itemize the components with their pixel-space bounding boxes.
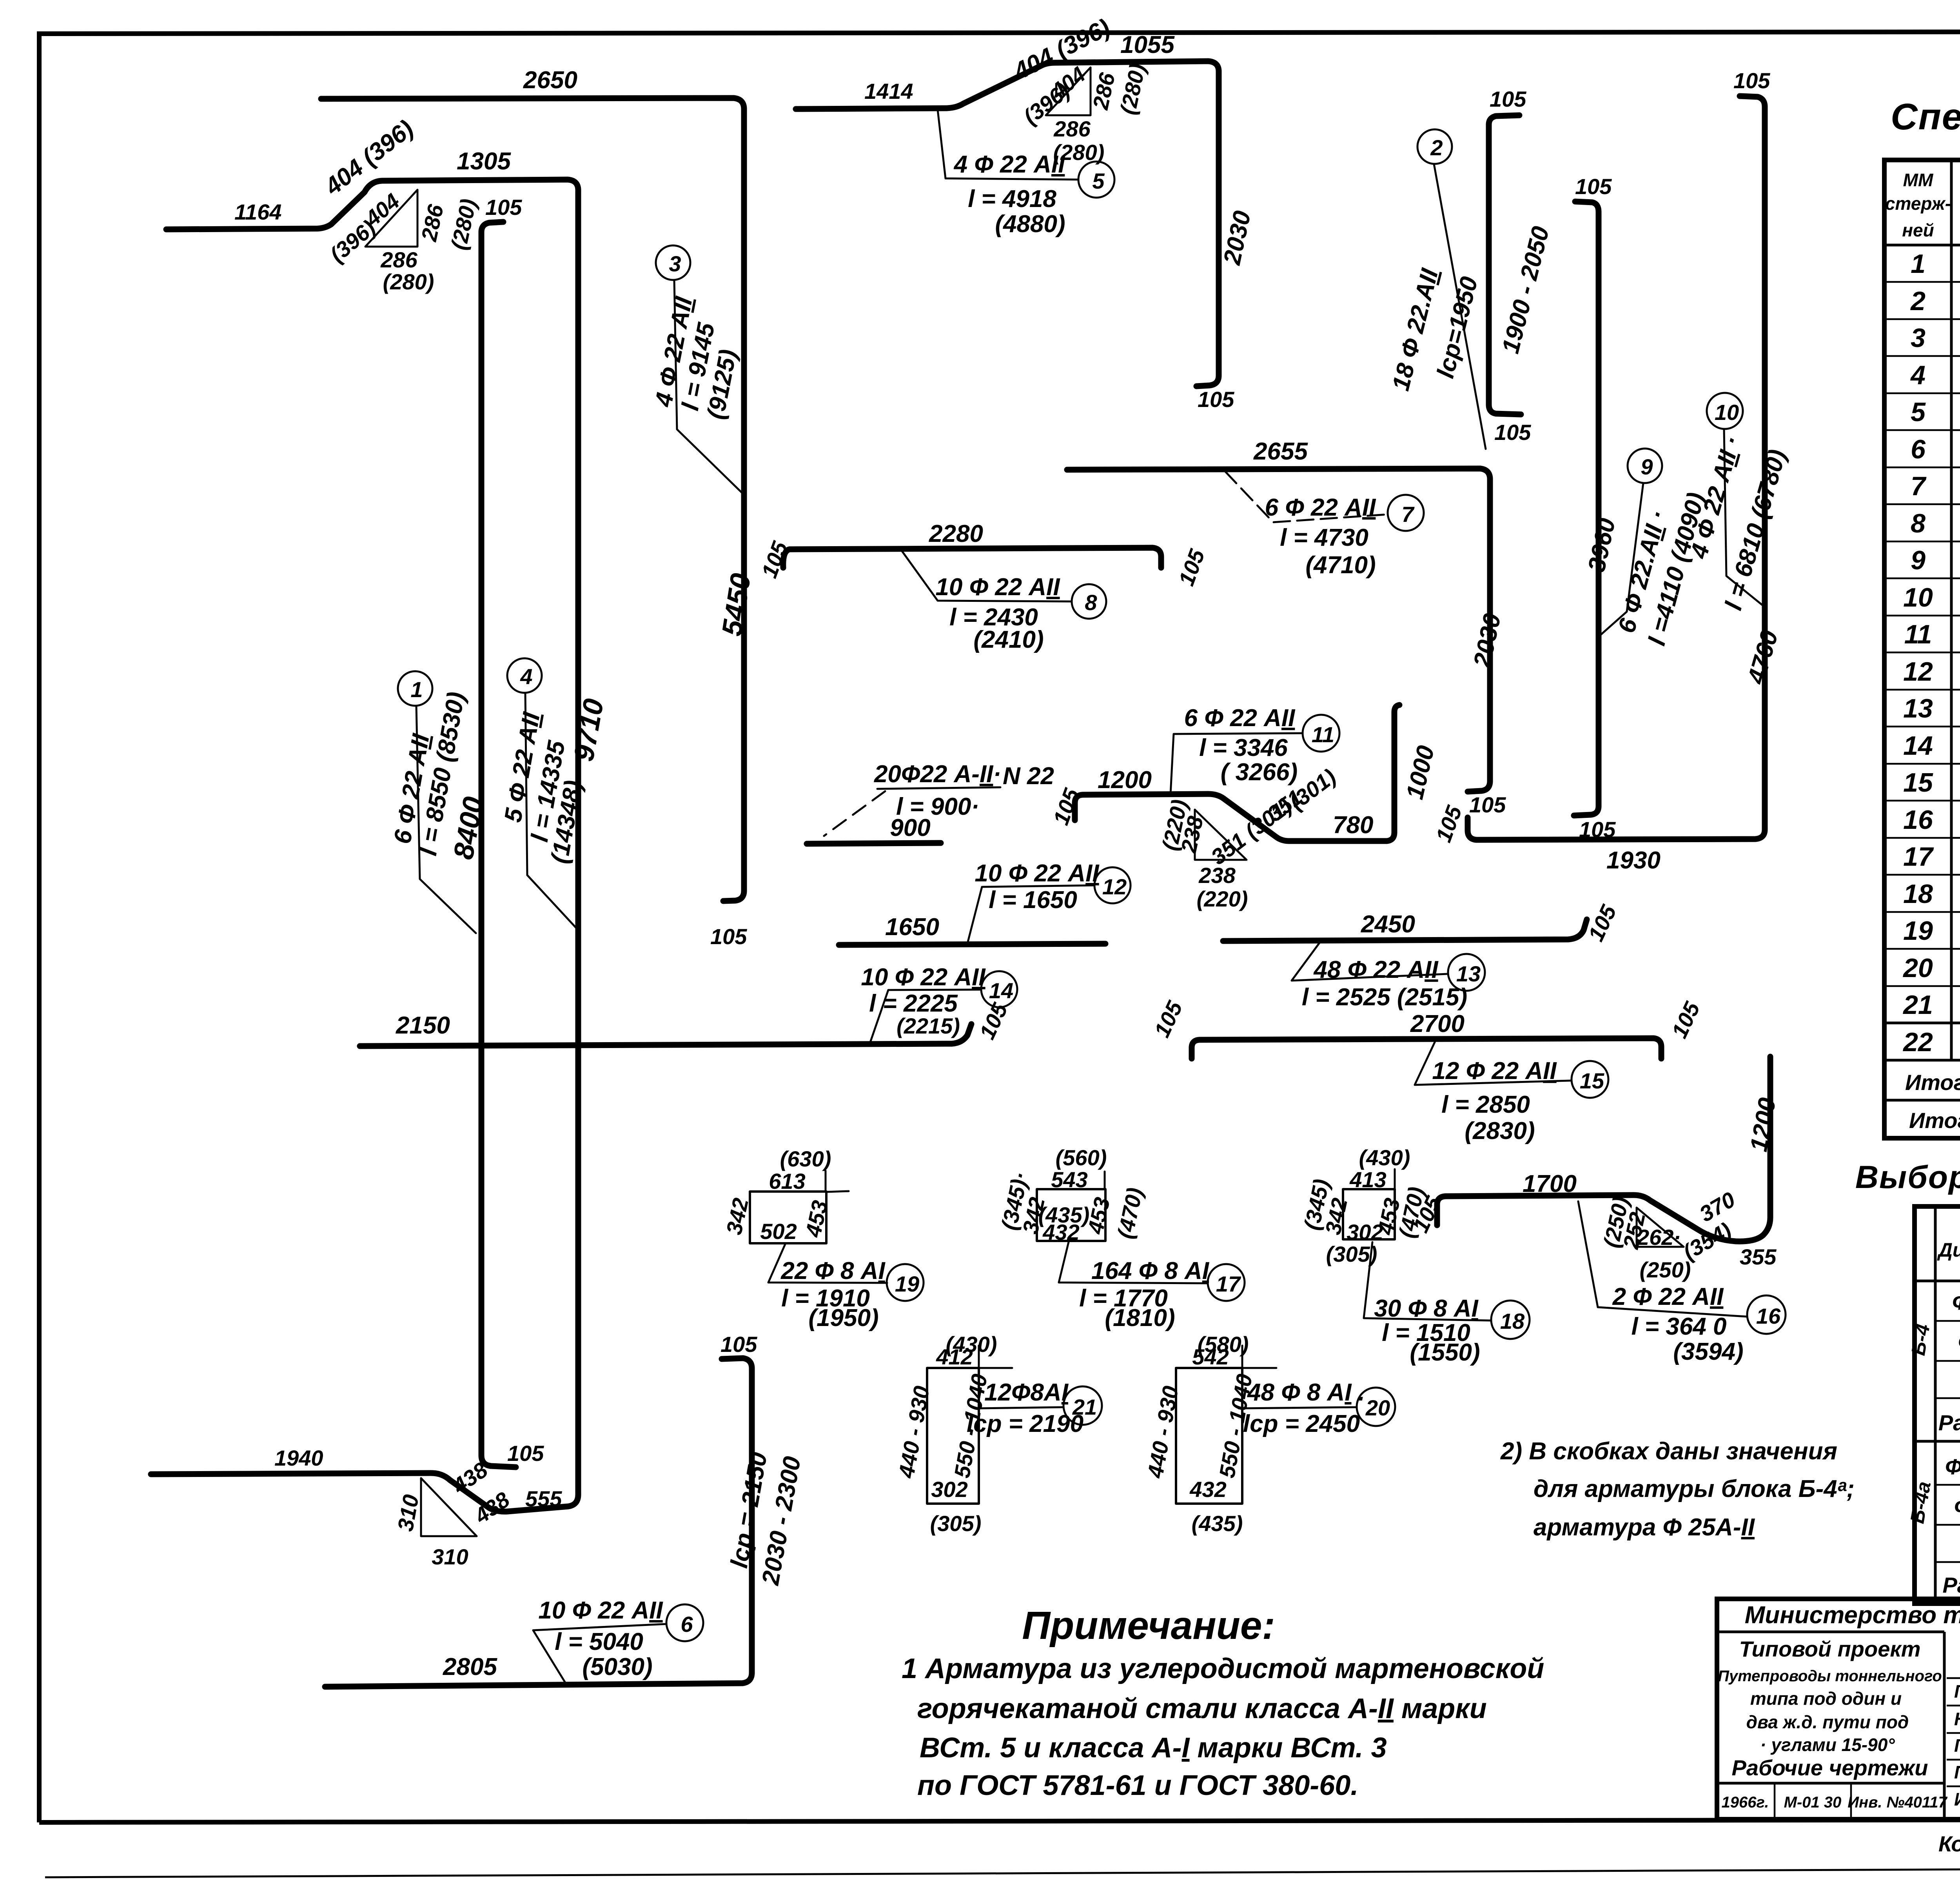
svg-text:(430): (430) — [1359, 1145, 1410, 1170]
svg-text:Инв. №40117: Инв. №40117 — [1847, 1794, 1947, 1811]
svg-text:1: 1 — [410, 677, 423, 702]
callout circle 17 leader — [1059, 1242, 1245, 1332]
svg-text:Путепроводы тоннельного: Путепроводы тоннельного — [1718, 1668, 1942, 1685]
rebar bar 10 (vertical 4760 + 1930) — [1431, 68, 1770, 874]
svg-text:14: 14 — [989, 978, 1013, 1003]
svg-text:12: 12 — [1102, 874, 1127, 899]
svg-text:30 Ф 8 АI: 30 Ф 8 АI — [1374, 1295, 1479, 1322]
svg-text:арматура Ф 25А-II: арматура Ф 25А-II — [1534, 1514, 1755, 1541]
spec table grid — [1884, 160, 1960, 1138]
svg-text:l = 4918: l = 4918 — [968, 185, 1056, 213]
svg-text:105: 105 — [1490, 87, 1526, 111]
svg-text:3: 3 — [669, 251, 681, 276]
spec table row 17 — [1903, 842, 1960, 872]
spec table row 20 — [1902, 953, 1960, 983]
svg-text:5: 5 — [1092, 169, 1105, 193]
stirrup rect 17 — [996, 1145, 1147, 1244]
svg-text:10 Ф 22 АII: 10 Ф 22 АII — [861, 964, 986, 991]
selection table row Ф8А-I — [1954, 1493, 1960, 1520]
svg-text:900: 900 — [890, 814, 930, 841]
svg-text:(250): (250) — [1640, 1257, 1691, 1282]
svg-text:17: 17 — [1216, 1272, 1241, 1296]
callout circle 10 leader — [1685, 393, 1791, 613]
svg-text:1305: 1305 — [457, 148, 511, 175]
selection table header text — [1937, 1217, 1960, 1282]
spec table row 7 — [1911, 471, 1960, 501]
svg-text:18: 18 — [1903, 879, 1933, 909]
svg-text:4: 4 — [520, 664, 532, 689]
svg-text:N 22: N 22 — [1003, 763, 1054, 790]
callout circle 4 leader — [499, 658, 587, 928]
svg-text:l = 364 0: l = 364 0 — [1631, 1313, 1726, 1340]
callout circle 6 leader — [533, 1597, 703, 1685]
svg-text:стерж-: стерж- — [1885, 193, 1951, 214]
rebar bar 3 (2650 + vertical 5450) — [321, 67, 747, 949]
spec table row 6 — [1911, 434, 1960, 464]
svg-text:Исполнил: Исполнил — [1954, 1789, 1960, 1809]
svg-text:2: 2 — [1910, 286, 1926, 316]
note 2 (values in brackets) — [1500, 1438, 1855, 1541]
rebar bar 1 (vertical 8400) — [481, 195, 544, 1467]
svg-text:Выборка арматуры на блок Б-4 (: Выборка арматуры на блок Б-4 (Б-4а) — [1855, 1159, 1960, 1195]
stirrup rect 19 — [721, 1146, 849, 1244]
svg-text:Диаметр: Диаметр — [1937, 1239, 1960, 1261]
svg-text:(435): (435) — [1192, 1511, 1243, 1536]
dimension triangle (310/438) of bar 4 bottom — [393, 1478, 477, 1569]
svg-text:432: 432 — [1189, 1477, 1226, 1502]
spec table row 14 — [1903, 731, 1960, 761]
svg-text:6: 6 — [681, 1612, 693, 1637]
svg-text:(630): (630) — [780, 1146, 831, 1171]
svg-text:2) В скобках даны значения: 2) В скобках даны значения — [1500, 1438, 1837, 1465]
selection table grid — [1915, 1206, 1960, 1604]
svg-text:1 Арматура из углеродистой: 1 Арматура из углеродистой мартеновской — [902, 1653, 1544, 1684]
svg-text:16: 16 — [1756, 1304, 1781, 1328]
spec table row 1 — [1911, 249, 1960, 279]
svg-text:1940: 1940 — [274, 1446, 323, 1470]
svg-text:15: 15 — [1580, 1068, 1604, 1093]
svg-text:для арматуры блока Б-4ᵃ;: для арматуры блока Б-4ᵃ; — [1534, 1475, 1855, 1502]
svg-text:l = 2225: l = 2225 — [869, 990, 958, 1017]
svg-text:два ж.д. пути под: два ж.д. пути под — [1746, 1712, 1909, 1732]
stirrup rect 18 — [1299, 1145, 1429, 1266]
callout circle 7 leader — [1225, 471, 1424, 579]
callout circle 5 leader — [938, 110, 1114, 238]
svg-text:10 Ф 22 АII: 10 Ф 22 АII — [975, 860, 1100, 887]
title block ministry heading — [1745, 1602, 1960, 1680]
svg-text:8: 8 — [1911, 509, 1926, 538]
callout circle 8 leader — [900, 549, 1106, 653]
svg-text:6: 6 — [1911, 434, 1926, 464]
dimension 2030 (bar 5) — [1218, 209, 1256, 267]
rebar bar 4 (1164+1305+vertical 9710+555+1940) — [151, 115, 578, 1528]
callout circle 3 leader — [650, 245, 744, 495]
svg-text:6 Ф 22 АII: 6 Ф 22 АII — [1265, 494, 1377, 521]
svg-text:13: 13 — [1456, 961, 1481, 986]
svg-text:105: 105 — [720, 1332, 757, 1357]
spec table row 19 — [1903, 916, 1960, 946]
spec table footer row 2 — [1909, 1108, 1960, 1133]
svg-text:12: 12 — [1903, 657, 1933, 687]
dimension 4760 (bar 10) — [1742, 627, 1784, 688]
spec table row 4 — [1910, 360, 1960, 390]
svg-text:по ГОСТ 5781-61 и ГОСТ 38: по ГОСТ 5781-61 и ГОСТ 380-60. — [917, 1770, 1358, 1801]
svg-text:(3594): (3594) — [1673, 1338, 1743, 1365]
svg-text:(1950): (1950) — [808, 1304, 878, 1332]
spec table row 18 — [1903, 879, 1960, 909]
svg-text:типа под один и: типа под один и — [1750, 1688, 1902, 1709]
svg-text:(2830): (2830) — [1465, 1117, 1535, 1144]
selection table row Ф25А-II — [1945, 1453, 1960, 1480]
svg-text:(4710): (4710) — [1305, 552, 1376, 579]
title block project cell — [1718, 1637, 1947, 1811]
svg-text:Итого. арматуры Ф 8 А I: Итого. арматуры Ф 8 А I — [1909, 1108, 1960, 1133]
svg-text:2: 2 — [1430, 135, 1443, 160]
spec table row 12 — [1903, 657, 1960, 687]
callout circle 18 leader — [1364, 1242, 1530, 1366]
spec table footer row 1 — [1905, 1070, 1960, 1095]
callout circle 15 leader — [1415, 1041, 1608, 1144]
svg-text:780: 780 — [1333, 812, 1373, 839]
svg-text:1966г.: 1966г. — [1722, 1794, 1769, 1811]
svg-text:( 3266): ( 3266) — [1221, 759, 1298, 786]
dimension lср=2150 / 2030-2300 (bar 6) — [726, 1450, 806, 1588]
svg-text:502: 502 — [760, 1219, 797, 1244]
svg-text:105: 105 — [1494, 420, 1531, 445]
stirrup rect 21 — [894, 1332, 1012, 1536]
svg-text:2650: 2650 — [523, 67, 577, 94]
svg-text:2655: 2655 — [1253, 438, 1308, 465]
svg-text:(2215): (2215) — [897, 1014, 960, 1038]
svg-text:19: 19 — [895, 1272, 919, 1296]
svg-text:2 Ф 22 АII: 2 Ф 22 АII — [1612, 1283, 1724, 1310]
svg-text:542: 542 — [1192, 1344, 1229, 1369]
svg-text:105: 105 — [1198, 387, 1234, 412]
rebar bar 9 (vertical 3960) — [1574, 174, 1616, 842]
svg-text:105: 105 — [1469, 792, 1506, 817]
svg-text:432: 432 — [1042, 1220, 1079, 1244]
rebar bar 16 (1700+355+vertical 1200) — [1408, 1057, 1777, 1269]
dimension triangle (404/286) of bar 5 — [1019, 62, 1150, 165]
svg-text:10: 10 — [1715, 400, 1739, 425]
svg-text:(1550): (1550) — [1410, 1339, 1480, 1366]
svg-text:l = 4730: l = 4730 — [1280, 524, 1368, 551]
svg-text:l = 2525 (2515): l = 2525 (2515) — [1302, 984, 1467, 1011]
svg-text:2450: 2450 — [1361, 911, 1415, 938]
svg-text:20: 20 — [1902, 953, 1933, 983]
dimension 5450 (bar 3) — [716, 571, 757, 638]
svg-text:613: 613 — [769, 1169, 805, 1193]
rebar bar 22 (900) — [807, 814, 941, 844]
spec table row 5 — [1911, 397, 1960, 427]
svg-text:286: 286 — [380, 247, 417, 272]
svg-text:22 Ф 8 АI: 22 Ф 8 АI — [780, 1257, 886, 1284]
callout circle 1 leader — [389, 671, 476, 933]
title block frame — [1717, 1599, 1960, 1819]
svg-text:Расход арматуры на 1м³: Расход арматуры на 1м³ — [1942, 1573, 1960, 1597]
svg-text:· углами 15-90°: · углами 15-90° — [1760, 1735, 1895, 1755]
rebar bar 14 (2150) — [360, 999, 1013, 1046]
rebar bar 15 (2700) — [1149, 997, 1705, 1059]
svg-text:1200: 1200 — [1098, 767, 1152, 794]
svg-text:8: 8 — [1085, 590, 1097, 615]
svg-text:9: 9 — [1641, 454, 1653, 479]
svg-text:Ф 8 АI·: Ф 8 АI· — [1958, 1330, 1960, 1354]
dimension 1000 (bar 11) — [1401, 743, 1439, 802]
svg-text:(305): (305) — [930, 1511, 982, 1536]
svg-text:(1810): (1810) — [1105, 1304, 1175, 1332]
svg-text:Типовой проект: Типовой проект — [1739, 1637, 1920, 1661]
svg-text:горячекатаной стали класса: горячекатаной стали класса А-II марки — [917, 1693, 1487, 1724]
stirrup rect 20 — [1143, 1332, 1276, 1536]
svg-text:302: 302 — [931, 1477, 967, 1502]
svg-text:105: 105 — [710, 924, 747, 949]
svg-text:Ф22 АII: Ф22 АII — [1952, 1290, 1960, 1314]
spec table row 3 — [1911, 323, 1960, 353]
svg-text:Проверил: Проверил — [1954, 1762, 1960, 1782]
svg-text:(4880): (4880) — [995, 211, 1065, 238]
spec table row 2 — [1910, 286, 1960, 316]
rebar bar 7 (2655 + vertical 2030) — [1067, 438, 1506, 817]
spec table row 9 — [1911, 545, 1960, 575]
selection table row consumption 1 — [1938, 1410, 1960, 1435]
svg-text:105: 105 — [1575, 174, 1612, 199]
svg-text:105: 105 — [1733, 68, 1770, 93]
callout circle 12 leader — [967, 860, 1131, 945]
dimension triangle (404/286) of bar 4 — [325, 189, 481, 294]
selection table row consumption 2 — [1942, 1573, 1960, 1597]
svg-text:10 Ф 22 АII: 10 Ф 22 АII — [538, 1597, 663, 1624]
svg-text:12Ф8АI: 12Ф8АI — [984, 1379, 1069, 1406]
rebar mark 22 note (20Ф22А-II l=900 №22) — [824, 761, 1054, 836]
svg-text:Итого арматуры Ф 22 А-II (Ф2: Итого арматуры Ф 22 А-II (Ф25АII) — [1905, 1070, 1960, 1095]
svg-text:310: 310 — [432, 1544, 468, 1569]
dimension 1900-2050 (bar 2) — [1497, 224, 1555, 356]
svg-text:555: 555 — [525, 1486, 562, 1511]
svg-text:4 Ф 22 АII: 4 Ф 22 АII — [953, 151, 1066, 178]
svg-text:М-01 30: М-01 30 — [1784, 1794, 1842, 1811]
svg-text:2805: 2805 — [443, 1653, 497, 1680]
svg-text:18: 18 — [1500, 1309, 1525, 1333]
svg-text:17: 17 — [1903, 842, 1934, 872]
callout circle 19 leader — [768, 1243, 924, 1332]
svg-text:1414: 1414 — [864, 79, 913, 104]
dimension 9710 (bar 4) — [568, 696, 610, 764]
callout circle 20 leader — [1239, 1379, 1395, 1437]
svg-text:1055: 1055 — [1120, 31, 1175, 58]
svg-text:(5030): (5030) — [582, 1653, 652, 1680]
svg-text:Спецификация арматуры: Спецификация арматуры — [1891, 96, 1960, 138]
svg-text:543: 543 — [1051, 1167, 1087, 1192]
svg-text:105: 105 — [485, 195, 522, 220]
svg-text:6 Ф 22 АII: 6 Ф 22 АII — [1184, 705, 1296, 732]
rebar bar 12 (1650) — [839, 914, 1105, 945]
svg-text:Расход арматуры. на 1 м³: Расход арматуры. на 1 м³ — [1938, 1410, 1960, 1435]
svg-text:4: 4 — [1910, 360, 1926, 390]
svg-text:(560): (560) — [1056, 1145, 1107, 1170]
svg-text:1650: 1650 — [885, 914, 939, 941]
svg-text:16: 16 — [1903, 805, 1933, 835]
svg-text:238: 238 — [1198, 863, 1236, 888]
svg-text:Гл.инж.ГТМ: Гл.инж.ГТМ — [1954, 1681, 1960, 1702]
svg-text:1700: 1700 — [1523, 1170, 1577, 1197]
callout circle 9 leader — [1599, 449, 1710, 648]
spec table row 8 — [1911, 509, 1960, 538]
svg-text:302: 302 — [1347, 1220, 1383, 1244]
spec table row 13 — [1903, 694, 1960, 723]
svg-text:5: 5 — [1911, 397, 1926, 427]
rebar bar 6 (vertical lср=2150 + 2805) — [325, 1332, 757, 1687]
selection table row Ф22АII — [1952, 1288, 1960, 1315]
spec table row 15 — [1903, 768, 1960, 797]
spec table row 11 — [1904, 619, 1960, 649]
dimension triangle (262/250) of bar 16 — [1599, 1195, 1735, 1282]
dimension 3960 (bar 9) — [1583, 516, 1621, 574]
svg-text:Ф 8 А-I: Ф 8 А-I — [1954, 1494, 1960, 1519]
svg-text:lср = 2450: lср = 2450 — [1243, 1410, 1360, 1437]
rebar bar 5 (1414+1055+vertical 2030) — [796, 14, 1234, 412]
svg-text:20: 20 — [1365, 1395, 1390, 1420]
selection table block labels — [1906, 1322, 1935, 1525]
copied-by note — [1938, 1831, 1960, 1856]
selection table row Ф8АI — [1958, 1328, 1960, 1355]
callout circle 16 leader — [1578, 1201, 1786, 1365]
svg-text:(280): (280) — [383, 269, 434, 294]
spec table row 21 — [1902, 990, 1960, 1020]
svg-text:Министерство транспортного с: Министерство транспортного строительства… — [1745, 1602, 1960, 1629]
svg-text:1: 1 — [1911, 249, 1926, 279]
svg-text:Нач тип отд.: Нач тип отд. — [1954, 1709, 1960, 1729]
svg-text:ней: ней — [1902, 220, 1934, 240]
bottom trim line — [45, 1867, 1960, 1877]
spec table row 22 — [1902, 1027, 1960, 1057]
rebar bar 8 (2280) — [757, 520, 1209, 589]
callout circle 14 leader — [861, 964, 1017, 1045]
svg-text:11: 11 — [1312, 722, 1334, 747]
svg-text:22: 22 — [1902, 1027, 1933, 1057]
svg-text:2150: 2150 — [396, 1012, 450, 1039]
svg-text:15: 15 — [1903, 768, 1933, 797]
svg-text:l = 3346: l = 3346 — [1199, 734, 1288, 761]
callout circle 13 leader — [1292, 942, 1485, 1011]
svg-text:Ф25 А-II: Ф25 А-II — [1945, 1454, 1960, 1479]
svg-text:2280: 2280 — [929, 520, 983, 547]
svg-text:9: 9 — [1911, 545, 1926, 575]
svg-text:2700: 2700 — [1410, 1010, 1465, 1037]
svg-text:Гл.инж.пр.: Гл.инж.пр. — [1954, 1735, 1960, 1756]
svg-text:ВСт. 5 и класса А-I марки: ВСт. 5 и класса А-I марки ВСт. 3 — [920, 1732, 1387, 1764]
svg-text:ММ: ММ — [1903, 170, 1934, 190]
svg-text:13: 13 — [1903, 694, 1933, 723]
callout circle 21 leader — [967, 1379, 1102, 1437]
note heading — [1022, 1604, 1275, 1648]
title: specification table heading — [1891, 96, 1960, 138]
svg-text:lср = 2190: lср = 2190 — [967, 1410, 1083, 1437]
svg-text:20Ф22 А-II·: 20Ф22 А-II· — [874, 761, 1001, 788]
svg-text:Копировала· Чеч: Копировала· Чеч — [1938, 1831, 1960, 1856]
svg-text:105: 105 — [507, 1441, 544, 1466]
svg-text:7: 7 — [1401, 502, 1415, 527]
svg-text:12 Ф 22 АII: 12 Ф 22 АII — [1432, 1057, 1557, 1084]
svg-text:10: 10 — [1903, 583, 1933, 612]
svg-text:l = 5040: l = 5040 — [555, 1628, 643, 1655]
title block signature rows — [1954, 1681, 1960, 1809]
svg-text:1164: 1164 — [234, 200, 281, 224]
dimension 2030 (bar 7) — [1468, 611, 1506, 670]
svg-text:(220): (220) — [1197, 886, 1248, 911]
svg-text:7: 7 — [1911, 471, 1927, 501]
svg-text:48 Ф 8 АI .: 48 Ф 8 АI . — [1247, 1379, 1365, 1406]
spec table row 10 — [1903, 583, 1960, 612]
dimension triangle (238/220) of bar 11 — [1157, 797, 1248, 911]
svg-text:10 Ф 22 АII: 10 Ф 22 АII — [935, 574, 1060, 601]
svg-text:19: 19 — [1903, 916, 1933, 946]
svg-text:Рабочие чертежи: Рабочие чертежи — [1731, 1755, 1928, 1780]
callout circle 2 leader — [1387, 129, 1486, 449]
spec table row 16 — [1903, 805, 1960, 835]
note 1 text — [902, 1653, 1544, 1801]
callout circle 11 leader — [1171, 705, 1339, 794]
svg-text:l = 2850: l = 2850 — [1441, 1091, 1530, 1118]
spec table header text — [1885, 170, 1960, 244]
svg-text:1930: 1930 — [1606, 847, 1661, 874]
svg-text:412: 412 — [936, 1344, 973, 1369]
svg-text:355: 355 — [1740, 1244, 1777, 1269]
svg-text:48 Ф 22 АII: 48 Ф 22 АII — [1313, 956, 1439, 983]
svg-text:l = 1650: l = 1650 — [989, 886, 1077, 914]
rebar bar 2 (vertical 1900-2050) — [1489, 87, 1531, 445]
svg-text:Примечание:: Примечание: — [1022, 1604, 1275, 1648]
title: selection table heading — [1855, 1159, 1960, 1195]
dimension 8400 (bar 1) — [448, 794, 490, 862]
svg-text:21: 21 — [1902, 990, 1933, 1020]
svg-text:3: 3 — [1911, 323, 1926, 353]
svg-text:11: 11 — [1904, 619, 1932, 649]
svg-text:(2410): (2410) — [973, 626, 1044, 653]
svg-text:164 Ф 8 АI: 164 Ф 8 АI — [1091, 1257, 1210, 1284]
svg-text:286: 286 — [1053, 116, 1091, 141]
rebar bar 13 (2450) — [1223, 901, 1621, 945]
dimension 1200 (bar 16) — [1745, 1096, 1781, 1154]
rebar bar 11 (1200+780+vertical 1000) — [1048, 705, 1399, 870]
svg-text:262·: 262· — [1637, 1225, 1681, 1250]
svg-text:14: 14 — [1903, 731, 1933, 761]
svg-text:413: 413 — [1349, 1167, 1386, 1192]
